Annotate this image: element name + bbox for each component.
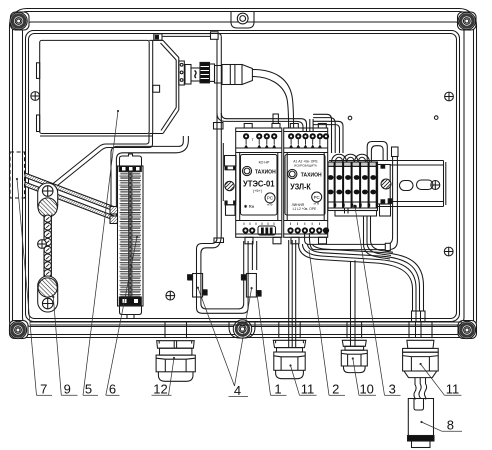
svg-text:3: 3 [389,382,396,397]
panel screw center-bottom [166,291,175,300]
leader 12 [173,357,175,359]
svg-text:10: 10 [359,382,373,397]
horizontal wire to УЗЛ-К top [217,113,313,131]
svg-text:(+5+): (+5+) [253,189,263,193]
leader 9 [52,296,54,298]
cable clamp right (item 4/1) [241,274,261,298]
label panel [241,155,278,216]
strip bottom cap [119,297,141,319]
svg-text:L1 L2 +0в- ОРЕ: L1 L2 +0в- ОРЕ [293,207,317,211]
svg-text:11: 11 [301,382,315,397]
leader 8 [420,421,422,423]
svg-text:4: 4 [234,383,241,398]
corner boss top-left [10,12,29,30]
wires below blocks [344,208,346,214]
corner boss bottom-left [9,321,28,339]
leader 2 [309,250,329,395]
connector on box (item 11 style plug) [179,61,253,85]
cert mark [265,193,275,203]
cable slack loop (bottom center) [197,234,257,313]
wires УЗЛ-К bottom to gland 2 [289,240,296,348]
mounting panel [26,31,460,322]
jumper loops above blocks [332,154,347,162]
enclosure outer wall [10,9,477,338]
svg-text:ИСКРОЗАЩИТА: ИСКРОЗАЩИТА [294,163,317,167]
pin number ticks [244,223,274,226]
svg-text:УЗЛ-К: УЗЛ-К [290,182,311,191]
clip on horizontal wire [273,114,278,123]
top terminals [243,133,277,139]
module УЗЛ-К (U2) [284,124,329,244]
svg-text:РС: РС [314,195,320,200]
wire clip on W1 [214,123,224,130]
leader 11b [420,363,422,365]
feet [245,237,253,244]
svg-text:7: 7 [40,382,47,397]
panel screw top-right [445,92,454,101]
leader 3 [355,207,385,396]
callout leaders and numbers [16,110,462,431]
leaders 4 [197,287,199,289]
DIN rail [329,161,446,207]
top center latch [231,12,254,29]
top terminals [288,133,329,139]
power supply box 5 [37,40,179,136]
leader 7 [16,178,18,180]
svg-text:5: 5 [85,382,92,397]
wires over УЗЛ-К bending down right [313,114,343,153]
svg-text:8: 8 [447,418,454,433]
svg-text:нП9: нП9 [314,201,320,205]
top tabs [244,124,252,129]
cable gland 10 [341,322,367,373]
label panel [285,155,325,216]
wire W1 from top down [211,32,224,243]
vertical terminal strip (item 6) [118,154,144,306]
end bracket with screw [378,165,391,205]
svg-text:ТАХИОН: ТАХИОН [255,170,276,176]
svg-text:нП9: нП9 [267,202,273,206]
svg-text:т: т [252,137,254,142]
leader 5 [117,110,119,112]
module УТЭС-01 (U1) [236,124,282,244]
rail slot 1 [400,181,414,191]
bottom flange lines [30,321,462,323]
logo [242,166,251,175]
line wire УЗЛ-К to rail clip (item 2) [305,157,398,251]
svg-text:РС: РС [267,196,273,201]
corner boss bottom-right [458,321,477,339]
wire clip on W1 lower [214,238,224,243]
svg-text:КО НР: КО НР [259,161,270,165]
cert mark [312,192,322,202]
svg-text:6: 6 [109,382,116,397]
ground bar (item 9) [38,183,58,312]
svg-text:11: 11 [446,382,460,397]
ferrule above right gland [412,311,426,322]
bottom terminals [287,227,329,233]
panel hole dot right [434,116,438,120]
svg-text:12: 12 [153,382,167,397]
connector clamp on W1 (item near 4) [222,143,238,215]
strip stripes [120,172,142,299]
dashed label (item 7) [10,152,25,198]
sensor cylinder (item 8) [408,399,435,448]
wire from box top to W1 junction [154,34,211,41]
svg-text:1: 1 [274,382,281,397]
leader 6 [136,236,138,238]
cable gland 11 right [403,322,439,378]
wire loop right of terminal blocks [367,142,398,176]
leader 11a [289,364,291,366]
leader 10 [352,357,354,359]
svg-text:ТАХИОН: ТАХИОН [301,173,322,179]
wire from box to ground bar [53,134,150,185]
cable arc from connector to УЗЛ-К [252,70,293,129]
svg-text:✱ Rн: ✱ Rн [244,204,255,209]
bottom terminals [242,227,255,233]
svg-text:9: 9 [64,382,71,397]
svg-text:2: 2 [332,382,339,397]
feet [291,237,299,244]
svg-text:УТЭС-01: УТЭС-01 [243,180,275,189]
cable gland 12 [156,322,195,381]
wire from bracket to strip left side [111,136,183,221]
wire bundle УЗЛ-К bottom to right gland [299,244,426,346]
ground straps (hatched bands) [25,173,118,212]
panel hole dot left [348,116,352,120]
enclosure lid seam [23,22,465,327]
branch to gland 3 [350,261,352,346]
terminal blocks on rail (item 3) [328,154,394,259]
leader 1 [257,294,271,396]
bottom center boss [229,320,255,338]
cable stub + break to sensor 8 [414,378,427,400]
screw left of bar [38,240,47,249]
corner boss top-right [458,12,477,30]
top tabs [290,124,298,129]
cable clamp left (item 4) [188,274,208,298]
panel screw left [31,92,40,101]
rail slot 2 with screw [417,180,434,190]
cable gland 1 [273,322,305,379]
logo [288,169,297,178]
panel screw right-lower [444,247,453,256]
